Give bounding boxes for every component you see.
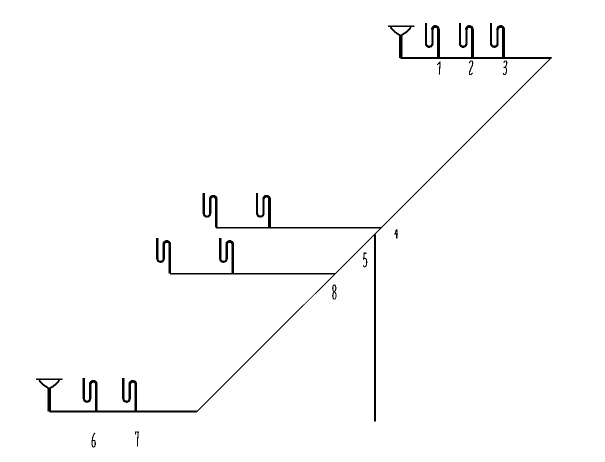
coil 1 bbox=[426, 23, 439, 58]
coil 6 bbox=[84, 378, 97, 412]
coil (upper middle left) bbox=[204, 193, 217, 228]
wire: main diagonal bbox=[197, 58, 552, 412]
label 4 bbox=[395, 229, 398, 238]
label 1 bbox=[437, 62, 440, 74]
wire: upper middle bus bbox=[216, 227, 381, 229]
antenna AN2 (bottom left) bbox=[36, 379, 62, 411]
label 2 bbox=[469, 61, 472, 75]
wire: lower middle bus bbox=[170, 273, 335, 275]
coil (upper middle right) bbox=[257, 193, 270, 228]
wire: bottom bus bbox=[49, 411, 197, 413]
label 7 bbox=[135, 432, 138, 447]
coil 2 bbox=[460, 23, 473, 58]
antenna AN1 (top right) bbox=[388, 26, 414, 58]
coil (lower middle right) bbox=[220, 238, 233, 274]
coil 3 bbox=[491, 23, 504, 58]
wire: vertical drop at node 5 bbox=[374, 234, 376, 421]
coil 7 bbox=[123, 378, 136, 412]
label 6 bbox=[92, 433, 95, 447]
label 5 bbox=[363, 253, 366, 267]
label 8 bbox=[333, 285, 336, 299]
label 3 bbox=[503, 61, 506, 75]
wire: top bus bbox=[401, 57, 552, 59]
coil (lower middle left) bbox=[157, 238, 170, 274]
